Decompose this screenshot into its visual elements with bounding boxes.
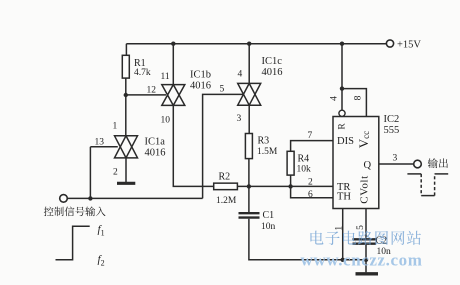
- svg-text:1: 1: [334, 226, 344, 231]
- label 输出 (output): [428, 158, 438, 168]
- svg-text:4.7k: 4.7k: [134, 68, 151, 78]
- wire IC1c pin3 to R3: [248, 105, 250, 133]
- svg-text:6: 6: [308, 190, 313, 200]
- svg-text:R2: R2: [219, 172, 231, 183]
- wire to ground: [365, 260, 367, 273]
- node: pin4/pin8 branch: [340, 86, 344, 90]
- wire input up to IC1c pin5: [203, 94, 243, 198]
- svg-text:C1: C1: [263, 210, 275, 221]
- svg-text:Q: Q: [364, 160, 372, 171]
- resistor R1: [122, 55, 129, 78]
- svg-text:8: 8: [354, 95, 364, 100]
- svg-text:IC1a: IC1a: [145, 137, 166, 148]
- svg-text:555: 555: [384, 125, 400, 136]
- wire pin5 to C2: [365, 209, 367, 239]
- svg-text:4016: 4016: [262, 67, 283, 78]
- IC2 555 box: [333, 117, 379, 209]
- node: input/pin13 junction: [88, 196, 92, 200]
- capacitor C1: [239, 212, 260, 214]
- svg-text:4: 4: [238, 70, 243, 80]
- wire IC1c pin4: [248, 44, 250, 84]
- wire R4 branch: [290, 175, 292, 186]
- svg-text:www.cnczz.com: www.cnczz.com: [301, 251, 423, 270]
- svg-text:13: 13: [95, 138, 105, 148]
- reset bubble pin4: [339, 110, 345, 116]
- resistor R2: [214, 183, 238, 190]
- svg-text:7: 7: [308, 131, 313, 141]
- wire rail to R1: [125, 44, 127, 56]
- input terminal: [60, 195, 68, 203]
- svg-text:11: 11: [161, 72, 170, 82]
- svg-text:R3: R3: [258, 136, 270, 147]
- svg-text:2: 2: [113, 168, 118, 178]
- svg-text:IC1c: IC1c: [262, 56, 283, 67]
- wire junction to TH: [291, 186, 333, 197]
- svg-text:TH: TH: [337, 192, 351, 203]
- node: pin1 bottom junction: [341, 258, 345, 262]
- node: R4/TR/TH junction: [288, 184, 292, 188]
- svg-text:12: 12: [147, 86, 157, 96]
- svg-text:1.5M: 1.5M: [257, 147, 278, 157]
- wire R3 to junction: [248, 159, 250, 187]
- wire C1 to bottom rail: [249, 219, 366, 260]
- ground (IC2): [356, 272, 379, 275]
- svg-text:4016: 4016: [145, 148, 166, 159]
- svg-text:R: R: [338, 123, 348, 130]
- wire pin12 control to IC1b: [126, 94, 166, 96]
- wire control input: [67, 197, 202, 199]
- wire R2 to IC2 TR: [237, 185, 333, 187]
- wire Q output pin3: [379, 163, 414, 165]
- +15V terminal: [386, 40, 393, 47]
- node: rail-IC1b junction: [171, 42, 175, 46]
- wire pin13 control: [90, 146, 117, 148]
- svg-text:3: 3: [393, 154, 398, 164]
- svg-text:10n: 10n: [261, 222, 276, 232]
- svg-text:+15V: +15V: [397, 40, 421, 51]
- wire junction down to C1: [248, 186, 250, 212]
- svg-text:10k: 10k: [297, 165, 312, 175]
- svg-text:IC2: IC2: [384, 114, 400, 125]
- resistor R3: [245, 134, 252, 159]
- svg-text:1.2M: 1.2M: [216, 196, 237, 206]
- ground (IC1a): [117, 182, 135, 185]
- label 控制信号输入 (control signal input): [44, 207, 54, 217]
- svg-text:2: 2: [308, 178, 313, 188]
- node: R1/IC1a/pin12 junction: [124, 93, 128, 97]
- wire C2 to bottom rail: [365, 245, 367, 260]
- node: C2 bottom junction: [364, 258, 368, 262]
- wire rail to pin4/pin8: [341, 44, 343, 111]
- analog switch IC1c 4016: [238, 83, 261, 105]
- svg-text:5: 5: [356, 225, 366, 230]
- svg-text:3: 3: [237, 114, 242, 124]
- svg-text:1: 1: [113, 122, 118, 132]
- svg-text:DIS: DIS: [337, 136, 354, 147]
- analog switch IC1a 4016: [115, 136, 138, 158]
- output waveform (negative pulse): [407, 173, 421, 175]
- resistor R4: [287, 151, 294, 175]
- node: R2/R3/C1 junction: [247, 184, 251, 188]
- +15V supply rail: [126, 43, 386, 45]
- wire IC1b pin10 to R2: [173, 105, 213, 186]
- svg-text:4016: 4016: [190, 81, 211, 92]
- wire IC1a pin2 to ground: [125, 158, 127, 182]
- wire IC1b pin11: [172, 44, 174, 85]
- svg-text:CVolt: CVolt: [358, 175, 370, 203]
- wire R1 to IC1a: [125, 78, 127, 136]
- svg-text:4: 4: [330, 96, 340, 101]
- watermark line 1: 电子电路图网站: [310, 231, 323, 245]
- node: rail-IC1c junction: [247, 42, 251, 46]
- svg-text:IC1b: IC1b: [190, 70, 211, 81]
- output terminal: [414, 160, 422, 168]
- node: rail-IC2 junction: [340, 42, 344, 46]
- svg-text:5: 5: [220, 85, 225, 95]
- wire pin1 to bottom rail: [342, 209, 344, 260]
- wire R4 to DIS: [291, 141, 333, 152]
- capacitor C2: [353, 238, 377, 240]
- input waveform f1/f2: [56, 226, 90, 259]
- svg-text:R4: R4: [298, 154, 310, 165]
- analog switch IC1b 4016: [162, 85, 185, 106]
- svg-text:10: 10: [161, 116, 171, 126]
